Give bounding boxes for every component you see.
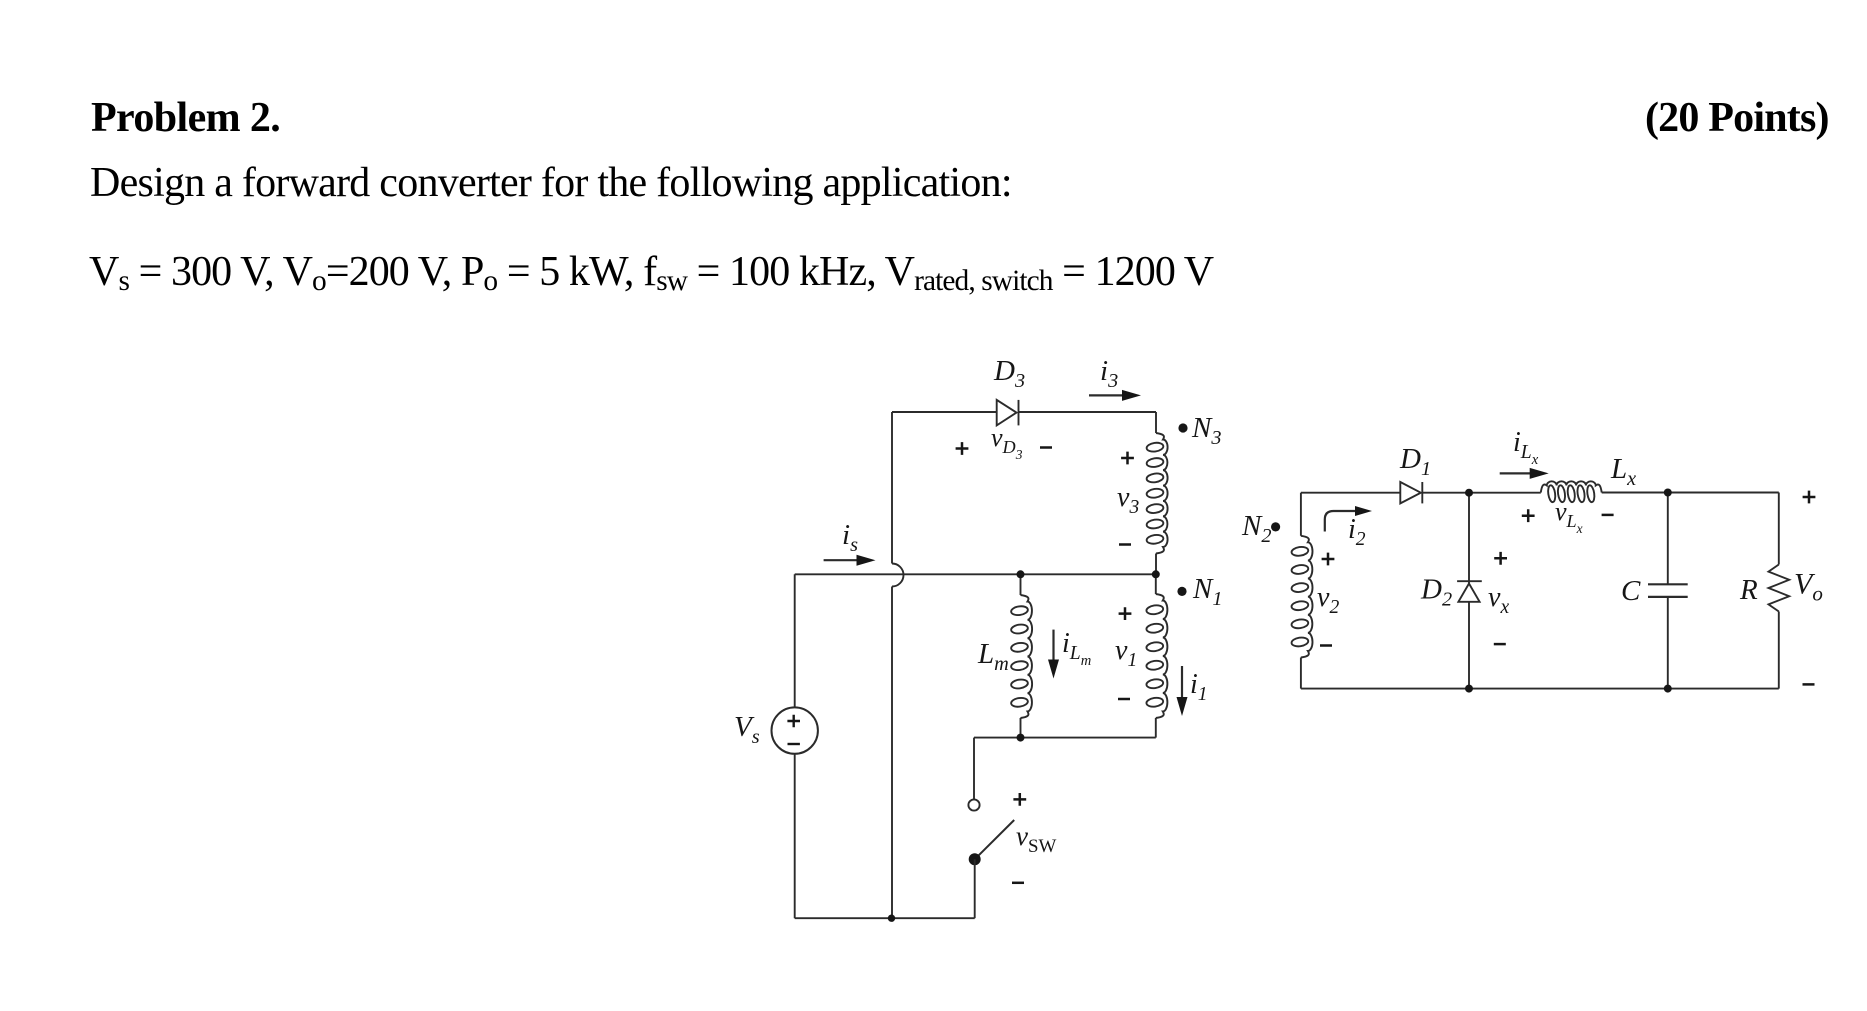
svg-text:v2: v2 xyxy=(1317,582,1339,618)
svg-text:v1: v1 xyxy=(1115,635,1137,671)
svg-text:R: R xyxy=(1739,574,1758,606)
svg-text:v3: v3 xyxy=(1117,482,1139,518)
svg-text:Lm: Lm xyxy=(977,638,1009,675)
svg-text:iLx: iLx xyxy=(1513,427,1539,468)
svg-text:i3: i3 xyxy=(1100,355,1118,392)
svg-text:vSW: vSW xyxy=(1016,821,1056,857)
svg-text:Vo: Vo xyxy=(1794,568,1823,606)
svg-text:D2: D2 xyxy=(1420,574,1452,611)
svg-text:D1: D1 xyxy=(1399,443,1431,480)
svg-text:is: is xyxy=(842,519,858,556)
svg-text:vx: vx xyxy=(1488,582,1509,618)
svg-text:D3: D3 xyxy=(993,355,1025,392)
svg-text:C: C xyxy=(1621,575,1641,607)
svg-text:N3: N3 xyxy=(1191,412,1221,449)
svg-text:Vs: Vs xyxy=(734,711,760,748)
svg-text:N2: N2 xyxy=(1241,510,1271,547)
svg-text:iLm: iLm xyxy=(1062,628,1091,669)
svg-text:vD3: vD3 xyxy=(991,423,1023,462)
svg-text:vLx: vLx xyxy=(1555,497,1583,536)
svg-text:i2: i2 xyxy=(1348,514,1366,550)
svg-text:Lx: Lx xyxy=(1610,453,1636,490)
svg-text:i1: i1 xyxy=(1190,669,1208,705)
svg-text:N1: N1 xyxy=(1192,573,1222,610)
